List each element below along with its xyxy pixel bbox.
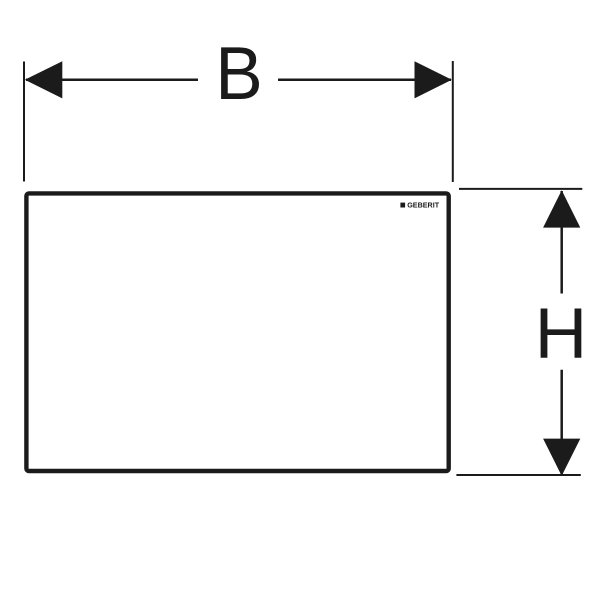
svg-text:GEBERIT: GEBERIT [407,201,440,210]
flush plate outline [26,193,448,471]
dimension line B right segment [278,79,451,82]
dimension line H lower segment [560,370,563,475]
arrowhead H up [543,190,580,227]
dimension line B left segment [26,79,198,82]
Geberit logo square [400,203,405,208]
arrowhead B right [415,61,452,98]
extension line H top [459,188,582,190]
extension line B left [23,62,25,182]
svg-text:B: B [215,33,263,116]
svg-text:H: H [535,295,588,374]
dimension line H upper segment [560,191,563,294]
arrowhead H down [543,439,580,476]
extension line H bottom [456,474,580,476]
arrowhead B left [25,61,63,98]
extension line B right [452,61,454,182]
